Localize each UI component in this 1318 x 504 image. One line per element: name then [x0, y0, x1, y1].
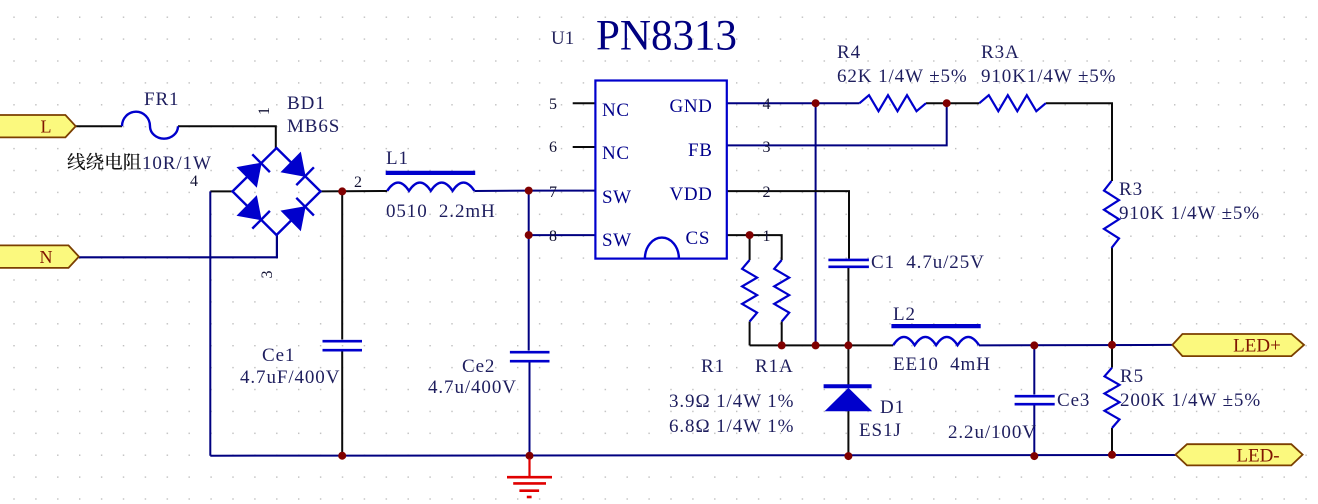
svg-text:3: 3 [259, 271, 276, 279]
port N [0, 245, 79, 268]
svg-text:R5: R5 [1120, 366, 1144, 387]
svg-text:SW: SW [602, 230, 632, 251]
wire R1A bottom [781, 322, 783, 346]
svg-text:910K 1/4W ±5%: 910K 1/4W ±5% [1119, 203, 1260, 224]
resistor R5 [1105, 368, 1120, 428]
wire R3A right elbow down [1046, 103, 1112, 181]
wire FR1 to bridge top [178, 126, 276, 148]
svg-text:1: 1 [763, 228, 771, 245]
ground [507, 459, 552, 498]
svg-text:4: 4 [190, 173, 198, 190]
resistor R3 [1104, 181, 1119, 248]
svg-text:8: 8 [549, 228, 557, 245]
svg-text:R1A: R1A [755, 356, 794, 377]
svg-text:SW: SW [602, 187, 632, 208]
wire R1 bottom to rail [749, 322, 751, 346]
fuse FR1 [122, 112, 178, 139]
node 2 junction [338, 187, 346, 195]
diode bottom-left [238, 196, 262, 220]
svg-text:62K 1/4W ±5%: 62K 1/4W ±5% [837, 66, 968, 87]
svg-text:1: 1 [256, 107, 273, 115]
resistor R1A [774, 260, 789, 322]
wire R3 bottom to LED+ rail [1111, 248, 1113, 345]
svg-text:L2: L2 [893, 304, 916, 325]
wire bridge right to node 2 [321, 190, 388, 192]
svg-text:N: N [40, 247, 53, 267]
wire pin8 [529, 234, 596, 236]
svg-text:LED+: LED+ [1233, 336, 1281, 357]
svg-text:2.2u/100V: 2.2u/100V [948, 422, 1037, 443]
diode bottom-right [282, 207, 306, 231]
svg-text:5: 5 [549, 96, 557, 113]
junction R1A bottom [778, 341, 786, 349]
svg-text:R3: R3 [1119, 179, 1143, 200]
resistor R3A [979, 95, 1046, 111]
resistor R4 [860, 95, 927, 111]
svg-text:Ce1: Ce1 [262, 345, 295, 366]
wire N input to bridge bottom [79, 235, 277, 257]
wire Ce3 branch [1033, 345, 1035, 394]
svg-text:NC: NC [602, 143, 630, 164]
wire left vertical down [209, 191, 211, 455]
wire pin3 FB to R4 right node [727, 103, 947, 145]
junction pin8 [525, 231, 533, 239]
inductor L1 [387, 183, 474, 191]
wire D1 branch [847, 345, 849, 384]
wire pin1 CS to R1 R1A [727, 235, 782, 260]
svg-text:6: 6 [549, 139, 557, 156]
svg-text:3.9Ω 1/4W 1%: 3.9Ω 1/4W 1% [669, 391, 794, 412]
svg-text:910K1/4W ±5%: 910K1/4W ±5% [981, 66, 1116, 87]
svg-text:R1: R1 [701, 356, 725, 377]
svg-text:4.7uF/400V: 4.7uF/400V [240, 367, 340, 388]
svg-text:R4: R4 [837, 42, 861, 63]
svg-text:L: L [41, 117, 52, 137]
bottom rail junctions [338, 452, 346, 460]
wire bridge left corner to left rail [210, 190, 232, 192]
wire C1 bottom to LED+ rail [847, 268, 849, 346]
svg-text:200K 1/4W ±5%: 200K 1/4W ±5% [1120, 390, 1261, 411]
diode D1 [824, 386, 872, 410]
svg-text:0510 2.2mH: 0510 2.2mH [386, 201, 496, 222]
svg-text:CS: CS [686, 228, 710, 249]
wire L input to FR1 [76, 125, 122, 127]
svg-text:10R/1W: 10R/1W [142, 153, 212, 174]
junction R3-R5 [1108, 341, 1116, 349]
wire R5 stubs [1111, 345, 1113, 368]
inductor L2 [893, 337, 979, 345]
capacitor Ce1 [323, 341, 363, 350]
svg-text:FB: FB [688, 140, 712, 161]
junction Ce3 top [1030, 341, 1038, 349]
svg-text:3: 3 [763, 139, 771, 156]
capacitor Ce3 [1015, 396, 1055, 404]
wire pin5 stub [573, 102, 596, 104]
IC U1 PN8313 [595, 81, 726, 259]
wire Ce1 vertical [341, 191, 343, 339]
svg-text:MB6S: MB6S [287, 116, 340, 137]
svg-text:FR1: FR1 [144, 89, 179, 110]
wire L1 to pin7 [474, 190, 595, 192]
svg-text:L1: L1 [386, 148, 409, 169]
port LED- [1176, 444, 1303, 466]
svg-text:2: 2 [763, 184, 771, 201]
wire R4 right to R3A [926, 102, 979, 104]
svg-text:LED-: LED- [1236, 446, 1279, 467]
junction pin1 [746, 231, 754, 239]
svg-text:ES1J: ES1J [859, 420, 902, 441]
svg-text:D1: D1 [880, 397, 905, 418]
svg-text:4.7u/400V: 4.7u/400V [428, 377, 517, 398]
svg-text:4: 4 [763, 96, 771, 113]
junction C1-D1 rail [844, 341, 852, 349]
svg-text:VDD: VDD [670, 184, 713, 205]
svg-text:6.8Ω 1/4W 1%: 6.8Ω 1/4W 1% [669, 416, 794, 437]
diode top-left [238, 163, 262, 187]
wire pin4 node down to LED+ rail [815, 103, 817, 345]
wire bottom rail [210, 454, 1175, 457]
wire pin2 VDD elbow to C1 [727, 191, 849, 259]
svg-text:U1: U1 [551, 28, 574, 49]
wire LED+ rail [750, 344, 894, 346]
junction R4-FB [943, 99, 951, 107]
wire pin4 GND row [727, 102, 860, 104]
port LED+ [1172, 334, 1304, 357]
junction pin4 [812, 99, 820, 107]
svg-text:Ce3: Ce3 [1057, 390, 1090, 411]
capacitor C1 [828, 260, 869, 267]
svg-text:GND: GND [670, 96, 713, 117]
capacitor Ce2 [510, 352, 550, 361]
svg-text:R3A: R3A [981, 42, 1020, 63]
wire R1 top [749, 235, 751, 260]
svg-text:NC: NC [602, 100, 630, 121]
svg-text:2: 2 [354, 174, 362, 191]
svg-text:PN8313: PN8313 [596, 13, 737, 60]
bridge BD1 [233, 148, 321, 235]
svg-text:BD1: BD1 [287, 93, 326, 114]
junction pin7 [525, 187, 533, 195]
junction pin4 rail [812, 341, 820, 349]
svg-text:7: 7 [549, 184, 557, 201]
svg-text:EE10 4mH: EE10 4mH [893, 354, 991, 375]
wire pin7 node down to pin8 and Ce2 [528, 191, 530, 351]
port L [0, 115, 76, 137]
svg-text:Ce2: Ce2 [462, 356, 495, 377]
svg-text:C1 4.7u/25V: C1 4.7u/25V [871, 252, 985, 273]
wire pin6 stub [573, 146, 596, 148]
diode top-right [282, 153, 306, 177]
label wirewound resistor [68, 153, 142, 170]
resistor R1 [742, 260, 757, 322]
